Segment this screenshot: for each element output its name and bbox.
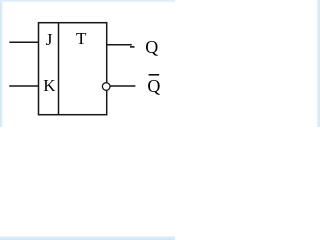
- svg-text:K: K: [43, 76, 56, 95]
- overline of Q-bar: [149, 74, 160, 76]
- border frame (decorative): [0, 0, 3, 127]
- svg-text:T: T: [76, 29, 87, 48]
- wire: Q-bar output: [110, 85, 135, 87]
- svg-text:Q: Q: [145, 37, 158, 57]
- wire: Q output: [107, 44, 132, 46]
- svg-text:Q: Q: [147, 76, 160, 96]
- wire: K input: [9, 85, 38, 87]
- inversion bubble: [102, 83, 110, 91]
- svg-text:J: J: [46, 30, 53, 49]
- flip-flop body U1: [39, 23, 107, 115]
- wire stub at Q output end: [130, 46, 135, 48]
- internal divider: [58, 23, 60, 115]
- wire: J input: [9, 41, 38, 43]
